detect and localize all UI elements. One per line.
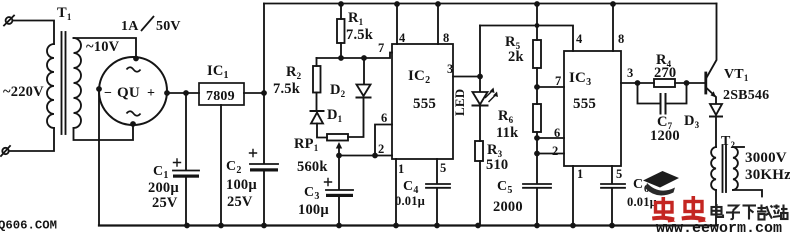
svg-text:0.01µ: 0.01µ bbox=[627, 195, 657, 209]
svg-text:1200: 1200 bbox=[650, 128, 680, 144]
svg-text:100µ: 100µ bbox=[226, 177, 257, 193]
resistor R1 bbox=[338, 1, 344, 7]
resistor R3 bbox=[475, 141, 483, 161]
capacitor C6 bbox=[601, 183, 625, 185]
svg-text:6: 6 bbox=[381, 111, 387, 125]
potentiometer RP1 bbox=[327, 134, 348, 141]
transformer T1 secondary winding bbox=[74, 38, 82, 128]
svg-text:3: 3 bbox=[627, 66, 633, 80]
node IC1 output bbox=[261, 90, 267, 96]
wire IC2 pin 3 bbox=[453, 76, 480, 78]
wire LED branch bbox=[479, 26, 481, 93]
diode D2 bbox=[363, 58, 365, 85]
wire V+ branch to LED / IC3 pin4 bbox=[480, 26, 573, 52]
node C1 tap bbox=[183, 90, 189, 96]
glyph zai bbox=[757, 205, 773, 220]
resistor R5 bbox=[534, 1, 540, 7]
regulator IC1 7809 box bbox=[199, 83, 244, 105]
svg-text:8: 8 bbox=[443, 31, 449, 45]
capacitor C1 bbox=[173, 170, 199, 172]
node bridge right (+) bbox=[164, 90, 170, 96]
wire C1 lead bbox=[185, 93, 187, 170]
wire plus to IC1 bbox=[167, 92, 199, 94]
svg-text:7.5k: 7.5k bbox=[346, 27, 374, 43]
transformer T1 core bbox=[61, 32, 63, 134]
wire secondary bottom to bridge bbox=[74, 125, 134, 140]
svg-text:7.5k: 7.5k bbox=[273, 81, 301, 97]
svg-text:30KHz: 30KHz bbox=[745, 167, 790, 183]
bridge internal labels bbox=[127, 67, 141, 72]
wire IC3 pin 8 bbox=[610, 1, 616, 7]
wire IC2 pin 1 bbox=[395, 159, 397, 226]
svg-text:270: 270 bbox=[654, 65, 676, 81]
transistor VT1 bbox=[704, 73, 707, 93]
svg-text:Q606.COM: Q606.COM bbox=[0, 219, 57, 233]
watermark logo cap bbox=[643, 171, 679, 195]
svg-text:2k: 2k bbox=[508, 49, 524, 65]
svg-text:25V: 25V bbox=[227, 194, 253, 210]
capacitor C7 bbox=[638, 83, 660, 104]
svg-text:5: 5 bbox=[616, 167, 622, 181]
svg-text:QU: QU bbox=[117, 85, 140, 101]
svg-text:1: 1 bbox=[398, 162, 404, 176]
svg-text:8: 8 bbox=[618, 32, 624, 46]
watermark site name glyphs "dian zi xia zai zhan" bbox=[712, 204, 788, 220]
svg-text:200µ: 200µ bbox=[148, 180, 179, 196]
resistor R2 bbox=[316, 58, 318, 66]
wire IC2 pin 4 bbox=[394, 1, 400, 7]
svg-text:1A: 1A bbox=[121, 19, 139, 34]
capacitor C5 bbox=[523, 183, 551, 185]
glyph dian bbox=[712, 204, 724, 217]
svg-text:100µ: 100µ bbox=[298, 202, 329, 218]
transformer T1 primary winding bbox=[47, 44, 54, 128]
svg-text:~220V: ~220V bbox=[3, 84, 44, 100]
capacitor C4 bbox=[426, 183, 450, 185]
svg-text:555: 555 bbox=[573, 96, 596, 112]
glyph zhan bbox=[773, 205, 788, 220]
svg-text:LED: LED bbox=[452, 89, 467, 116]
wire minus rail down bbox=[98, 89, 100, 226]
wire node A (pin 7 net) bbox=[317, 53, 393, 59]
svg-text:5: 5 bbox=[440, 161, 446, 175]
wire bbox=[13, 21, 55, 45]
diode D1 bbox=[311, 110, 324, 112]
svg-text:510: 510 bbox=[486, 157, 508, 173]
wire IC3 pin 6 bbox=[537, 137, 564, 139]
capacitor C3 bbox=[326, 189, 353, 191]
svg-text:11k: 11k bbox=[496, 125, 519, 141]
wire IC3 pin 5 bbox=[611, 166, 613, 184]
resistor R4 bbox=[654, 79, 675, 87]
svg-text:2000: 2000 bbox=[493, 199, 523, 215]
timer IC3 555 box bbox=[564, 51, 621, 166]
svg-text:4: 4 bbox=[399, 31, 406, 45]
svg-text:3000V: 3000V bbox=[745, 150, 787, 166]
svg-text:2SB546: 2SB546 bbox=[723, 88, 769, 103]
svg-text:50V: 50V bbox=[156, 19, 181, 34]
node bridge top bbox=[133, 56, 139, 62]
wire pin 6 jog bbox=[375, 125, 392, 156]
node bridge bottom bbox=[130, 121, 136, 127]
glyph xia bbox=[743, 206, 757, 220]
wire IC3 pin 7 bbox=[537, 86, 564, 88]
svg-text:7: 7 bbox=[555, 74, 561, 88]
svg-text:7809: 7809 bbox=[206, 89, 235, 104]
wire IC1 ground lead bbox=[220, 105, 222, 226]
capacitor C2 bbox=[250, 163, 278, 165]
node dots bottom rail bbox=[184, 223, 615, 229]
bridge rectifier QU bbox=[99, 57, 167, 125]
op timer IC2 555 box bbox=[392, 44, 453, 159]
transformer T2 core bbox=[722, 145, 724, 192]
diode D3 bbox=[710, 104, 722, 115]
svg-text:7: 7 bbox=[378, 41, 384, 55]
svg-text:2: 2 bbox=[552, 144, 558, 158]
wire IC3 pin 2 bbox=[537, 153, 564, 155]
wire T2 primary bottom bbox=[715, 190, 717, 226]
wire IC2 pin 5 bbox=[436, 159, 438, 184]
svg-text:C: C bbox=[633, 177, 643, 192]
wire bbox=[479, 106, 481, 142]
wire C3 lead bbox=[338, 156, 340, 190]
terminal bottom-left input bbox=[2, 148, 8, 154]
glyph zi bbox=[726, 206, 740, 220]
wire bottom ground rail bbox=[99, 224, 717, 226]
watermark red characters bbox=[652, 196, 707, 223]
wire bbox=[9, 128, 54, 151]
wire IC2 pin 8 bbox=[435, 1, 441, 7]
svg-text:555: 555 bbox=[413, 96, 436, 112]
svg-text:−: − bbox=[104, 86, 112, 101]
svg-text:~10V: ~10V bbox=[86, 39, 120, 55]
svg-text:4: 4 bbox=[576, 32, 583, 46]
wire secondary top to bridge bbox=[74, 38, 137, 57]
svg-text:0.01µ: 0.01µ bbox=[395, 194, 425, 208]
wire IC1 output bbox=[244, 92, 264, 94]
wire V+ riser to top rail bbox=[263, 4, 265, 164]
svg-text:2: 2 bbox=[378, 142, 384, 156]
svg-text:560k: 560k bbox=[297, 159, 328, 175]
wire top power rail bbox=[264, 3, 717, 5]
svg-text:6: 6 bbox=[554, 126, 560, 140]
wire T2 secondary leads bbox=[733, 146, 744, 148]
terminal top-left input bbox=[6, 17, 13, 24]
node bridge left (-) bbox=[96, 86, 102, 92]
svg-text:1: 1 bbox=[577, 167, 583, 181]
svg-text:+: + bbox=[147, 86, 155, 101]
wire IC3 pin 3 output bbox=[621, 82, 654, 84]
svg-text:25V: 25V bbox=[152, 195, 178, 211]
wire pin2/6 net bbox=[339, 155, 392, 157]
wire IC3 pin 1 bbox=[572, 166, 574, 226]
svg-text:www.eeworm.com: www.eeworm.com bbox=[656, 220, 782, 233]
transformer T2 secondary winding bbox=[733, 147, 738, 190]
transformer T2 primary winding bbox=[711, 147, 716, 190]
LED bbox=[473, 92, 488, 105]
svg-text:3: 3 bbox=[447, 62, 453, 76]
resistor R6 bbox=[533, 104, 541, 132]
